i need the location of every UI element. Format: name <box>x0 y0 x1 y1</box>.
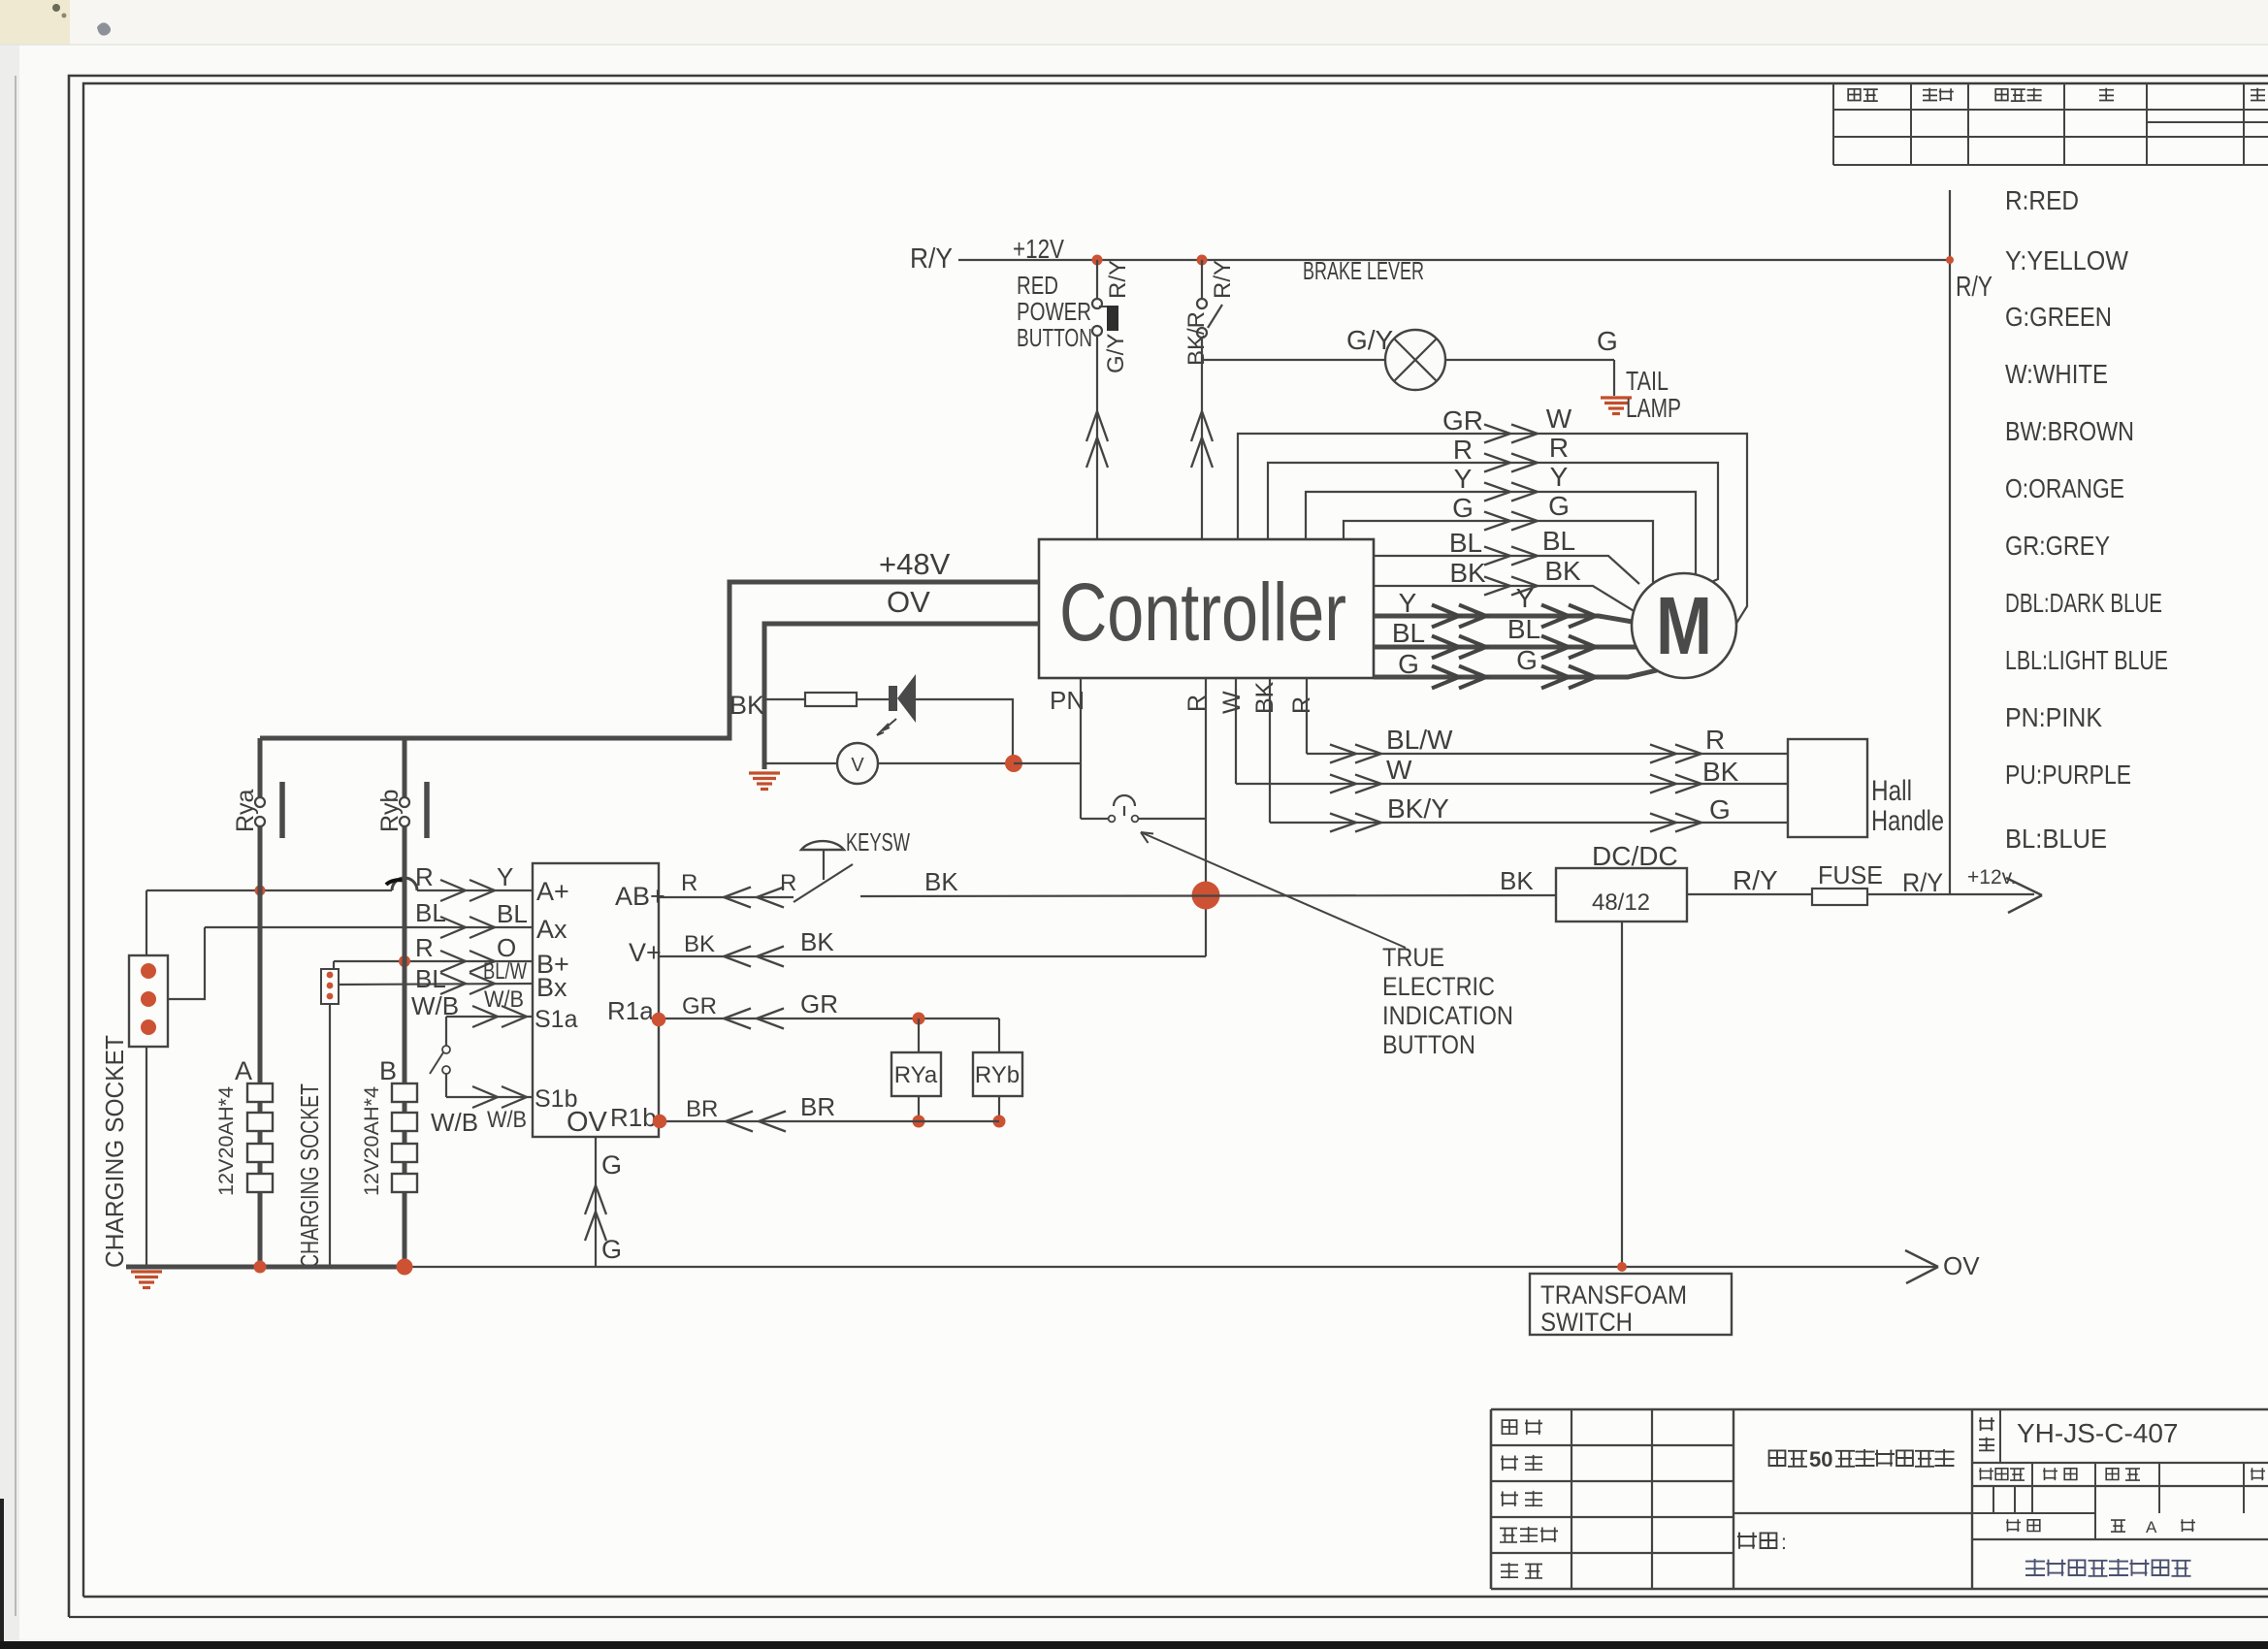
svg-text:V+: V+ <box>629 938 662 967</box>
wire LED to junction <box>916 699 1013 759</box>
charging socket B connector <box>321 969 339 1004</box>
svg-text:G: G <box>1709 794 1731 824</box>
svg-text:Bx: Bx <box>536 973 567 1002</box>
LED D1 <box>889 686 897 711</box>
junction dot bus battery B <box>397 1259 413 1276</box>
wire G/G motor sense <box>1344 521 1653 583</box>
junction dot R1b pin <box>653 1115 667 1129</box>
wire BK pin to hall BK/Y line <box>1269 678 1271 823</box>
svg-text:OV: OV <box>887 585 930 619</box>
svg-text:BL:BLUE: BL:BLUE <box>2005 824 2107 854</box>
wire +48V thick feed <box>729 582 1039 736</box>
svg-text:G: G <box>601 1235 622 1264</box>
ground symbol at OV wire <box>749 771 780 774</box>
wire Y motor phase (thick) <box>1374 616 1633 622</box>
wire W hall line <box>1236 783 1788 785</box>
wire lamp to ground <box>1445 359 1614 361</box>
junction dot R1a pin <box>652 1013 666 1027</box>
junction dot RYb bottom <box>993 1115 1006 1128</box>
wire keyswitch BK to DC/DC <box>860 895 1556 896</box>
svg-text:Y: Y <box>1454 464 1473 494</box>
svg-text:BK: BK <box>1702 757 1739 787</box>
svg-text:GR: GR <box>800 989 838 1018</box>
svg-text:BL: BL <box>1392 618 1425 648</box>
svg-text:Y: Y <box>1399 588 1417 618</box>
svg-text:Ryb: Ryb <box>376 790 404 832</box>
wire R1a GR line <box>659 1018 999 1019</box>
svg-text:BR: BR <box>800 1092 835 1121</box>
wire OV ground bus thick <box>126 1265 405 1270</box>
drawing title CJK 光阳50主回路电路图 <box>1769 1450 1807 1466</box>
svg-text:BK: BK <box>800 927 834 956</box>
hall handle box <box>1788 739 1867 837</box>
svg-text:R/Y: R/Y <box>1902 868 1943 897</box>
svg-text:Hall: Hall <box>1871 775 1912 807</box>
svg-text:TRUE: TRUE <box>1382 943 1444 972</box>
wire BK fuse branch <box>764 698 805 700</box>
svg-text:DBL:DARK BLUE: DBL:DARK BLUE <box>2005 588 2162 618</box>
svg-text:R: R <box>415 862 434 891</box>
voltmeter V1 wire <box>764 762 837 764</box>
svg-text:BK: BK <box>729 691 764 720</box>
connector chevrons on BK/R wire <box>1191 411 1213 441</box>
wire R1b BR line <box>659 1120 999 1122</box>
junction dot at R/Y vertical <box>1946 256 1954 264</box>
wire AB+ to keyswitch <box>659 896 794 898</box>
svg-text:W: W <box>1546 404 1572 434</box>
svg-text:OV: OV <box>1943 1251 1980 1280</box>
junction dot power button branch <box>1092 255 1103 266</box>
junction dot RYa bottom <box>913 1115 925 1128</box>
wire RYb to BR line <box>998 1096 1000 1121</box>
wire RYa to BR line <box>918 1096 920 1121</box>
svg-text:SWITCH: SWITCH <box>1540 1308 1633 1337</box>
svg-text:BL/W: BL/W <box>1386 725 1453 755</box>
company name CJK (blue) <box>2025 1559 2191 1576</box>
svg-text:G/Y: G/Y <box>1103 334 1129 373</box>
svg-text:M: M <box>1656 580 1712 671</box>
svg-text:G: G <box>1516 645 1538 675</box>
arrow +12v out <box>2006 878 2042 913</box>
svg-text:W: W <box>1218 691 1246 714</box>
svg-text:W/B: W/B <box>431 1108 478 1137</box>
svg-text:BR: BR <box>686 1096 718 1122</box>
label material cell <box>1737 1533 1776 1549</box>
svg-text:R: R <box>1288 696 1315 714</box>
ground symbol main <box>131 1270 162 1273</box>
transfoam switch box <box>1530 1274 1732 1335</box>
arrow OV bus end <box>1905 1250 1938 1283</box>
wire BK/R brake lever to controller <box>1201 338 1203 539</box>
svg-text:+12v.: +12v. <box>1967 866 2016 889</box>
svg-text:POWER: POWER <box>1017 297 1091 326</box>
wire R/Y right-side vertical <box>1949 190 1951 894</box>
connector chevrons on G/Y wire <box>1086 411 1108 441</box>
wire G/Y power button to controller <box>1096 336 1098 539</box>
svg-text:CHARGING SOCKET: CHARGING SOCKET <box>295 1083 324 1268</box>
svg-text:R: R <box>1549 433 1569 463</box>
junction dot B+ battery B <box>399 955 410 967</box>
svg-text:O:ORANGE: O:ORANGE <box>2005 473 2124 503</box>
svg-text:BK: BK <box>1449 558 1486 588</box>
svg-text:S1a: S1a <box>535 1006 578 1033</box>
wire Bx sense <box>338 984 533 985</box>
title area divider <box>1733 1512 1972 1514</box>
battery select switch S2 <box>445 1017 447 1046</box>
wire OV ground bus <box>405 1266 1938 1268</box>
wire B+ sense <box>334 961 533 969</box>
svg-text:R/Y: R/Y <box>1956 272 1993 303</box>
wire OV thick feed <box>764 624 1039 769</box>
ground symbol tail lamp <box>1601 396 1632 399</box>
svg-text:AB+: AB+ <box>615 882 665 911</box>
svg-text:R: R <box>780 870 796 896</box>
wire S1a <box>446 1016 533 1018</box>
svg-text:GR:GREY: GR:GREY <box>2005 531 2110 561</box>
battery A cells 12V20AH*4 <box>247 1083 273 1102</box>
svg-text:TAIL: TAIL <box>1626 366 1669 396</box>
wire BL/W hall line <box>1307 753 1788 755</box>
wire GR/W motor sense <box>1238 434 1747 630</box>
svg-text:BK: BK <box>1251 681 1279 714</box>
svg-text:Handle: Handle <box>1871 805 1944 837</box>
big junction dot on BK line <box>1192 882 1220 910</box>
tail lamp bulb <box>1385 330 1445 390</box>
wire brake to tail lamp <box>1202 359 1385 361</box>
svg-text:RYa: RYa <box>894 1062 938 1088</box>
svg-text:R/Y: R/Y <box>1105 260 1131 299</box>
wire S1b <box>446 1096 533 1098</box>
svg-text:G: G <box>1398 649 1419 679</box>
svg-text:V: V <box>851 755 864 776</box>
fuse F1 <box>805 693 857 706</box>
controller U1 box <box>1039 539 1374 678</box>
relay RYb <box>973 1052 1022 1096</box>
wire BL/BL motor sense <box>1374 556 1639 584</box>
svg-text:B: B <box>379 1056 397 1085</box>
svg-text:LAMP: LAMP <box>1626 393 1681 423</box>
svg-text:48/12: 48/12 <box>1592 889 1650 916</box>
svg-text:Ax: Ax <box>536 915 567 944</box>
svg-text:BK: BK <box>1500 866 1534 895</box>
wire R pin to hall BL/W line <box>1306 678 1308 754</box>
wire +12V rail <box>958 259 1950 261</box>
wire DC/DC to OV bus <box>1621 921 1623 1267</box>
red power button S1 <box>1096 260 1098 299</box>
wire V+ BK line <box>659 955 1206 957</box>
wire Ax sense <box>205 926 533 928</box>
fuse F2 <box>1812 889 1867 905</box>
relay contact Ryb <box>400 797 409 807</box>
junction dot brake branch <box>1197 255 1208 266</box>
svg-text:FUSE: FUSE <box>1818 860 1883 889</box>
svg-text:R1a: R1a <box>607 996 654 1025</box>
svg-text:BUTTON: BUTTON <box>1382 1030 1475 1059</box>
svg-text:W/B: W/B <box>487 1107 527 1133</box>
svg-text:GR: GR <box>682 993 717 1019</box>
svg-text:INDICATION: INDICATION <box>1382 1001 1513 1030</box>
svg-text:BL/W: BL/W <box>483 958 527 985</box>
svg-text:R/Y: R/Y <box>1210 260 1236 299</box>
svg-text:BL: BL <box>497 899 528 928</box>
wire PN pin down <box>1080 678 1082 819</box>
right section header cells <box>2031 1463 2033 1486</box>
svg-text:R1b: R1b <box>610 1103 657 1132</box>
wire socket mid pin to Ax <box>168 927 205 999</box>
svg-text:BK: BK <box>1544 556 1581 586</box>
DC/DC converter box <box>1556 868 1687 921</box>
junction dot RYa <box>913 1013 925 1025</box>
svg-text:Rya: Rya <box>232 789 259 832</box>
svg-text:G: G <box>1452 493 1474 523</box>
junction dot bus DC/DC <box>1617 1262 1627 1272</box>
relay RYa <box>891 1052 941 1096</box>
svg-text:Y: Y <box>1550 462 1569 492</box>
svg-text:Y: Y <box>497 862 513 891</box>
wire into RYb <box>998 1018 1000 1052</box>
svg-text:W/B: W/B <box>411 991 459 1020</box>
svg-text:RED: RED <box>1017 271 1058 300</box>
pointer arrow TRUE ELECTRIC INDICATION BUTTON <box>1141 832 1406 948</box>
svg-text:R/Y: R/Y <box>1733 865 1778 895</box>
voltmeter V1 <box>837 743 878 784</box>
svg-text:W/B: W/B <box>484 986 524 1013</box>
top-right parts list table <box>1833 109 2268 111</box>
svg-text:R: R <box>1705 725 1725 755</box>
wire socket B to ground bus <box>329 1004 331 1267</box>
svg-text:G: G <box>601 1150 622 1180</box>
junction dot indicator node <box>1005 755 1022 772</box>
charging socket A box <box>129 955 168 1047</box>
wire Y/Y motor sense <box>1306 492 1696 574</box>
svg-text:Y:YELLOW: Y:YELLOW <box>2005 245 2129 275</box>
svg-text:BL: BL <box>415 898 446 927</box>
svg-text:CHARGING SOCKET: CHARGING SOCKET <box>100 1035 129 1268</box>
svg-text:W: W <box>1386 755 1412 785</box>
svg-text:BK/Y: BK/Y <box>1387 793 1449 824</box>
svg-text:PN:PINK: PN:PINK <box>2005 702 2102 732</box>
wire W pin to hall W line <box>1235 678 1237 784</box>
svg-text:W:WHITE: W:WHITE <box>2005 359 2108 389</box>
svg-text:12V20AH*4: 12V20AH*4 <box>361 1086 383 1196</box>
svg-text:DC/DC: DC/DC <box>1592 841 1678 871</box>
keyswitch SW <box>794 864 853 902</box>
wire battery B string <box>403 738 407 1267</box>
wire DC/DC output R/Y <box>1687 893 2034 895</box>
svg-text::: : <box>1781 1532 1787 1554</box>
svg-text:Controller: Controller <box>1059 566 1346 658</box>
svg-text:R:RED: R:RED <box>2005 185 2079 215</box>
wire A+ sense <box>146 889 392 891</box>
svg-text:Y: Y <box>1516 583 1535 613</box>
title block <box>1491 1408 2268 1411</box>
svg-text:R: R <box>1453 435 1473 465</box>
wire R/R motor sense <box>1268 463 1718 583</box>
svg-text:A: A <box>2146 1518 2157 1536</box>
wire socket top pin to A+ <box>146 890 147 955</box>
svg-text:TRANSFOAM: TRANSFOAM <box>1540 1280 1687 1309</box>
right title section <box>1979 1417 1994 1431</box>
wire BL motor phase (thick) <box>1374 645 1637 650</box>
wire battery A string <box>258 738 263 1267</box>
svg-text:R/Y: R/Y <box>910 243 953 275</box>
svg-text:+48V: +48V <box>879 547 951 581</box>
svg-text:KEYSW: KEYSW <box>846 827 910 857</box>
svg-text:BL: BL <box>415 964 446 993</box>
svg-text:BK: BK <box>924 867 958 896</box>
svg-text:R: R <box>415 933 434 962</box>
svg-text:PU:PURPLE: PU:PURPLE <box>2005 760 2131 790</box>
svg-text:G: G <box>1548 491 1570 521</box>
wire G motor phase (thick) <box>1374 670 1657 677</box>
wire BK/BK motor sense <box>1374 586 1636 612</box>
svg-text:G: G <box>1597 326 1618 356</box>
svg-text:BK/R: BK/R <box>1183 311 1210 366</box>
wire BK/Y hall line <box>1270 822 1788 824</box>
parts table headers (illegible CJK) <box>1848 89 1878 101</box>
junction dot A+ battery A <box>255 886 266 896</box>
svg-text:12V20AH*4: 12V20AH*4 <box>215 1086 238 1196</box>
true-electric indication pushbutton SB <box>1081 818 1108 820</box>
svg-text:BL: BL <box>1507 614 1540 644</box>
svg-text:BK: BK <box>684 931 715 957</box>
svg-text:BL: BL <box>1449 528 1482 558</box>
svg-text:G:GREEN: G:GREEN <box>2005 302 2112 332</box>
wire OV/G to ground bus <box>595 1137 597 1267</box>
svg-text:A: A <box>235 1056 252 1085</box>
svg-text:RYb: RYb <box>975 1062 1020 1088</box>
svg-text:BUTTON: BUTTON <box>1017 323 1092 352</box>
svg-text:BRAKE LEVER: BRAKE LEVER <box>1303 256 1424 285</box>
motor M <box>1632 573 1736 678</box>
svg-text:LBL:LIGHT BLUE: LBL:LIGHT BLUE <box>2005 645 2168 675</box>
bottom black scanner bar <box>0 1641 2268 1649</box>
svg-text:BL: BL <box>1542 526 1575 556</box>
wire socket to ground bus <box>146 1047 147 1267</box>
svg-text:ELECTRIC: ELECTRIC <box>1382 972 1495 1001</box>
svg-text:R: R <box>681 870 697 896</box>
svg-text:50: 50 <box>1809 1447 1832 1471</box>
wire junction to PN vertical <box>1014 762 1081 764</box>
battery management connector block <box>533 863 659 1137</box>
relay contact Rya <box>255 797 265 807</box>
svg-text:GR: GR <box>1442 405 1483 436</box>
svg-text:A+: A+ <box>536 877 569 906</box>
brake lever switch <box>1201 260 1203 299</box>
svg-text:OV: OV <box>567 1107 608 1138</box>
title block row labels (CJK) <box>1502 1420 1516 1434</box>
svg-text:PN: PN <box>1050 686 1085 715</box>
wire into RYa <box>918 1018 920 1052</box>
junction dot bus battery A <box>254 1261 267 1274</box>
svg-text:BW:BROWN: BW:BROWN <box>2005 416 2134 446</box>
svg-text:YH-JS-C-407: YH-JS-C-407 <box>2017 1418 2178 1448</box>
wire R pin down to V+ line <box>1205 678 1207 956</box>
battery B cells 12V20AH*4 <box>392 1083 417 1102</box>
